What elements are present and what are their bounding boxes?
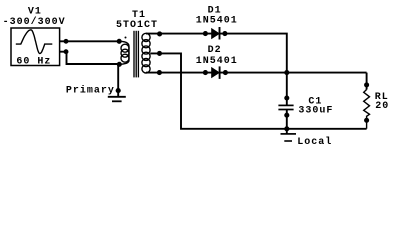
svg-text:D2: D2: [208, 45, 222, 56]
svg-text:5TO1CT: 5TO1CT: [116, 20, 158, 31]
svg-text:330uF: 330uF: [298, 105, 333, 116]
svg-text:Local: Local: [297, 136, 332, 148]
svg-text:T1: T1: [132, 10, 146, 21]
svg-text:V1: V1: [28, 7, 42, 18]
svg-text:1N5401: 1N5401: [196, 56, 238, 67]
svg-text:1N5401: 1N5401: [196, 16, 238, 27]
svg-text:Primary: Primary: [66, 85, 115, 97]
svg-text:-300/300V: -300/300V: [3, 16, 66, 28]
svg-text:60 Hz: 60 Hz: [16, 57, 51, 68]
svg-text:20: 20: [375, 101, 389, 112]
